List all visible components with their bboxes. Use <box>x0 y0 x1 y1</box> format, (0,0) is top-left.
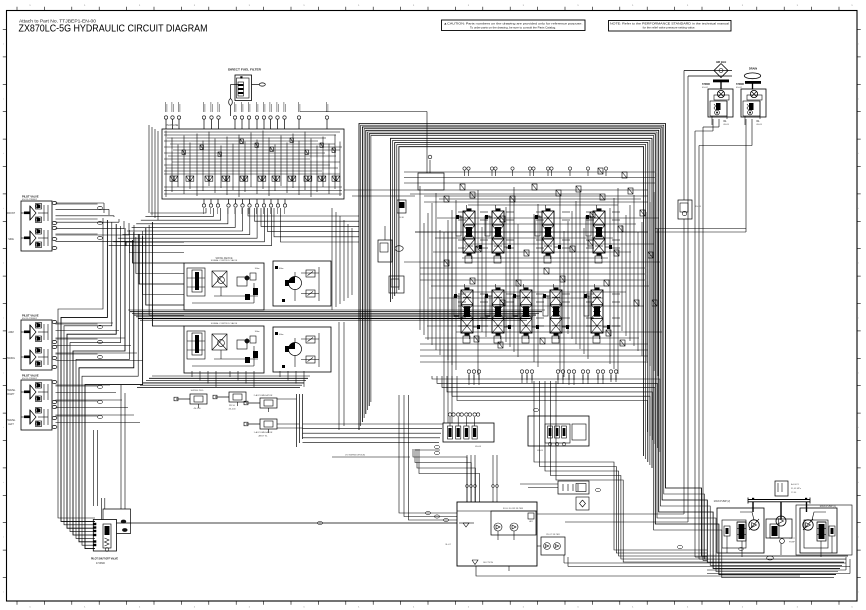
svg-text:ARM: ARM <box>8 331 13 334</box>
svg-text:4S-19 4736802: 4S-19 4736802 <box>22 378 38 380</box>
svg-text:STRNR: STRNR <box>736 84 744 86</box>
svg-text:DRAIN: DRAIN <box>749 67 757 71</box>
svg-text:SIGNAL CONTROL VALVE: SIGNAL CONTROL VALVE <box>211 322 238 325</box>
svg-text:To order parts on the drawing,: To order parts on the drawing, be sure t… <box>470 25 556 29</box>
svg-text:ZX870LC-5G HYDRAULIC CIRCUIT D: ZX870LC-5G HYDRAULIC CIRCUIT DIAGRAM <box>19 23 208 35</box>
svg-text:4743600: 4743600 <box>96 563 106 565</box>
svg-text:4S-36: 4S-36 <box>398 217 404 219</box>
svg-text:PILOT: PILOT <box>789 538 796 540</box>
svg-text:MAIN PUMP (2): MAIN PUMP (2) <box>714 500 731 503</box>
svg-text:SWING: SWING <box>7 357 15 360</box>
svg-text:ASSY SL: ASSY SL <box>258 435 268 438</box>
svg-text:TRAVEL: TRAVEL <box>7 389 16 392</box>
svg-text:2-ACCUMULATOR: 2-ACCUMULATOR <box>254 394 273 397</box>
svg-text:LEFT: LEFT <box>8 424 14 426</box>
svg-text:4S-05: 4S-05 <box>537 450 544 452</box>
svg-text:FULL FLOW FILTER: FULL FLOW FILTER <box>503 508 524 510</box>
svg-text:PILOT VALVE: PILOT VALVE <box>22 195 39 199</box>
svg-text:SWING PKG: SWING PKG <box>191 390 204 392</box>
svg-text:PILOT SHUT-OFF VALVE: PILOT SHUT-OFF VALVE <box>91 557 118 561</box>
svg-text:10kw: 10kw <box>255 331 260 333</box>
svg-text:1-ACCUMULATOR: 1-ACCUMULATOR <box>254 431 273 434</box>
svg-text:31,05 MPa: 31,05 MPa <box>791 488 802 490</box>
svg-text:RIGHT: RIGHT <box>7 394 15 396</box>
svg-text:4S-19: 4S-19 <box>695 206 702 208</box>
svg-text:(TO SWING DEVICE): (TO SWING DEVICE) <box>345 455 365 457</box>
svg-text:4S-19 4736802: 4S-19 4736802 <box>22 318 38 320</box>
svg-text:for the relief valve pressure: for the relief valve pressure setting va… <box>643 25 696 29</box>
svg-text:10kw: 10kw <box>279 334 284 336</box>
svg-text:SUCTION: SUCTION <box>483 562 493 564</box>
svg-text:4S-03: 4S-03 <box>756 124 762 126</box>
svg-text:FRONT: FRONT <box>7 212 16 215</box>
svg-text:PUMP: PUMP <box>789 542 795 544</box>
svg-text:SIDE: SIDE <box>8 238 14 241</box>
svg-text:TRAVEL: TRAVEL <box>7 419 16 422</box>
svg-text:AIR: AIR <box>529 520 533 523</box>
svg-text:STRNR: STRNR <box>702 84 710 86</box>
svg-text:PILOT VALVE: PILOT VALVE <box>22 314 39 318</box>
svg-text:10kw: 10kw <box>255 268 260 270</box>
svg-text:4S-06: 4S-06 <box>475 446 482 448</box>
svg-text:4S-200: 4S-200 <box>228 409 236 411</box>
svg-text:17-64: 17-64 <box>791 492 797 494</box>
svg-text:4S-03: 4S-03 <box>723 124 729 126</box>
svg-text:MAIN PUMP (1): MAIN PUMP (1) <box>820 505 837 508</box>
svg-text:PR SL: PR SL <box>229 405 236 407</box>
svg-text:10kw: 10kw <box>279 268 284 270</box>
svg-text:DIRECT FUEL FILTER: DIRECT FUEL FILTER <box>228 68 261 72</box>
svg-text:4S-19 4736802: 4S-19 4736802 <box>22 199 38 201</box>
svg-text:4S-100: 4S-100 <box>193 408 201 410</box>
svg-text:PILOT FILTER: PILOT FILTER <box>546 534 560 536</box>
svg-text:PILOT LINE: PILOT LINE <box>166 125 179 127</box>
svg-text:A4-0071: A4-0071 <box>791 483 800 486</box>
svg-text:3L-07: 3L-07 <box>445 544 451 546</box>
svg-text:SWING DEVICE: SWING DEVICE <box>216 258 233 260</box>
svg-text:PILOT VALVE: PILOT VALVE <box>22 374 39 378</box>
